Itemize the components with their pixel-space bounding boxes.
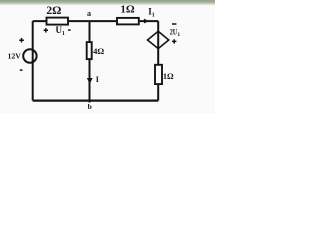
svg-text:1Ω: 1Ω — [163, 72, 174, 81]
svg-text:4Ω: 4Ω — [93, 46, 104, 56]
svg-text:12V: 12V — [7, 51, 21, 60]
svg-text:I: I — [96, 75, 99, 84]
svg-text:1: 1 — [62, 31, 65, 37]
svg-text:b: b — [88, 102, 92, 111]
svg-text:2Ω: 2Ω — [46, 5, 61, 17]
svg-text:1Ω: 1Ω — [120, 4, 135, 16]
svg-text:1: 1 — [152, 12, 155, 18]
svg-text:2U: 2U — [170, 28, 178, 37]
svg-text:a: a — [87, 9, 91, 18]
svg-text:1: 1 — [177, 32, 180, 38]
